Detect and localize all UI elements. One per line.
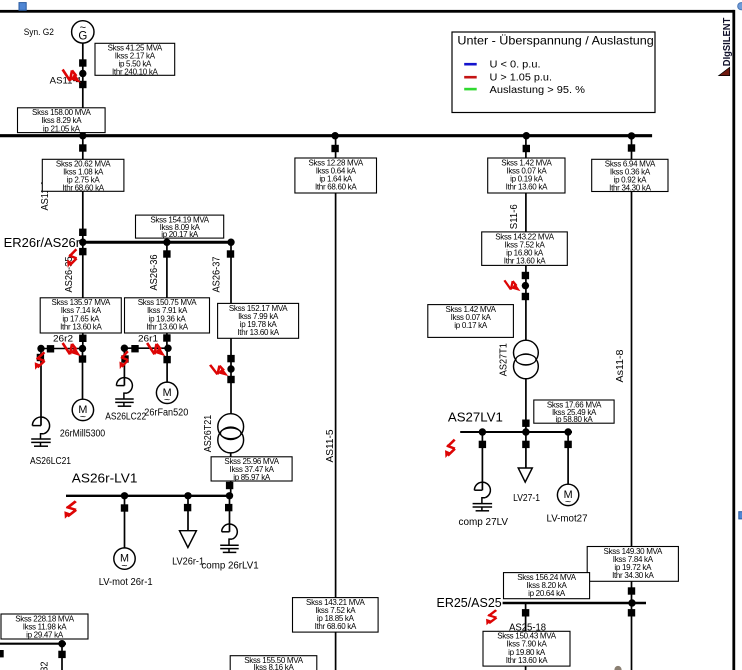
svg-text:AS26LC21: AS26LC21 xyxy=(30,456,71,467)
svg-text:AS27LV1: AS27LV1 xyxy=(448,411,503,425)
node junction (168,348) xyxy=(164,345,171,352)
result box AS25-18 xyxy=(483,631,570,666)
fault marker at AS26-37 xyxy=(210,365,228,376)
legend item Auslastung>95% xyxy=(464,88,477,91)
legend box Unter-Ueberspannung/Auslastung xyxy=(452,32,655,113)
terminal switch (526,613) xyxy=(522,609,529,616)
svg-text:ip 20.64 kA: ip 20.64 kA xyxy=(528,589,566,598)
terminal switch (525,276) xyxy=(522,272,529,279)
busbar main 110kV xyxy=(0,134,652,137)
svg-text:~: ~ xyxy=(565,496,571,508)
node junction (231,369) xyxy=(227,365,234,372)
terminal switch (83,338) xyxy=(79,335,86,342)
svg-text:Ithr 68.60 kA: Ithr 68.60 kA xyxy=(62,183,104,192)
motor 26rMill5300 xyxy=(72,399,93,423)
terminal switch (50,349) xyxy=(47,345,54,352)
terminal switch (229,508) xyxy=(225,504,232,511)
terminal switch (83,252) xyxy=(79,248,86,255)
shunt filter AS26LC21 xyxy=(31,417,51,446)
result box AS27T1-hv xyxy=(428,305,514,338)
legend item U<0 p.u. xyxy=(464,63,477,66)
terminal switch (230,486) xyxy=(226,482,233,489)
wire feeder AS26-37 to transformer AS26T21 xyxy=(230,244,232,414)
svg-text:LV26r-1: LV26r-1 xyxy=(172,557,204,568)
terminal switch (231,359) xyxy=(227,355,234,362)
busbar ER25/AS25 xyxy=(503,602,646,605)
wire transformer AS27T1 to busbar AS27LV1 xyxy=(525,378,527,432)
selection handle top-right xyxy=(738,3,742,10)
node junction (83,74) xyxy=(79,70,86,77)
frame right border xyxy=(732,10,735,670)
terminal switch (230,254) xyxy=(227,250,234,257)
terminal switch (568,444) xyxy=(564,441,571,448)
node junction (231,242) xyxy=(227,239,234,246)
shunt filter AS26LC22 xyxy=(115,378,134,407)
terminal switch (62,654) xyxy=(58,651,65,658)
terminal switch (526,444) xyxy=(522,441,529,448)
wire feeder AS11-5 xyxy=(335,137,337,670)
node junction (83,136) xyxy=(79,132,86,139)
fault marker at S11-6 xyxy=(504,280,520,291)
shunt filter comp 26rLV1 xyxy=(220,524,239,552)
svg-text:Ithr 68.60 kA: Ithr 68.60 kA xyxy=(315,622,357,631)
fault marker ER25 xyxy=(486,610,496,625)
terminal switch (167,360) xyxy=(163,356,170,363)
node junction (124,496) xyxy=(121,492,128,499)
svg-text:~: ~ xyxy=(121,560,127,572)
svg-text:Unter - Überspannung / Auslast: Unter - Überspannung / Auslastung xyxy=(457,33,653,47)
svg-text:~: ~ xyxy=(80,411,86,423)
svg-text:AS27T1: AS27T1 xyxy=(498,343,509,376)
node junction (568,432) xyxy=(564,428,571,435)
terminal switch (188,508) xyxy=(184,504,191,511)
load LV27-1 xyxy=(518,468,532,482)
wire feeder As11-8 xyxy=(631,137,633,602)
terminal switch (83,63) xyxy=(79,59,86,66)
node junction (62,644) xyxy=(58,640,65,647)
wire branch to shunt comp 26rLV1 xyxy=(229,496,231,532)
motor 26rFan520 xyxy=(156,382,177,406)
fault marker on 26r2 bus xyxy=(63,343,81,356)
node junction (188,496) xyxy=(184,492,191,499)
wire branch to motor LV-mot27 xyxy=(567,433,569,484)
svg-text:Ithr 240.10 kA: Ithr 240.10 kA xyxy=(112,67,159,76)
node junction (525,286) xyxy=(522,282,529,289)
partial node bottom edge xyxy=(614,666,621,670)
result box AS26T21-lv xyxy=(211,457,292,482)
node junction (526,136) xyxy=(523,132,530,139)
svg-text:Ithr 68.60 kA: Ithr 68.60 kA xyxy=(315,183,357,192)
motor LV-mot 26r-1 xyxy=(114,548,135,572)
svg-text:AS26-37: AS26-37 xyxy=(212,256,223,292)
wire feeder AS26-35 xyxy=(82,244,84,349)
wire feeder S11-6 to transformer AS27T1 xyxy=(525,137,527,341)
terminal switch (231,380) xyxy=(227,376,234,383)
generator Syn.G2 xyxy=(72,21,94,43)
node junction (41,348) xyxy=(37,345,44,352)
terminal switch (632,613) xyxy=(628,609,635,616)
svg-text:LV-mot 26r-1: LV-mot 26r-1 xyxy=(99,577,153,588)
svg-text:ip 58.80 kA: ip 58.80 kA xyxy=(556,415,594,424)
result box AS11-5-bot xyxy=(293,598,379,633)
terminal switch (124,508) xyxy=(121,504,128,511)
svg-text:ip 20.17 kA: ip 20.17 kA xyxy=(161,230,199,239)
svg-text:ER25/AS25: ER25/AS25 xyxy=(437,596,502,610)
terminal switch (83,232) xyxy=(79,229,86,236)
selection handle top-left xyxy=(19,3,26,11)
legend item U>1.05 p.u. xyxy=(464,76,477,79)
fault marker 26r1 left branch xyxy=(119,351,128,369)
svg-text:ip 21.05 kA: ip 21.05 kA xyxy=(43,124,81,133)
transformer AS26T21 xyxy=(218,414,244,453)
svg-text:LV-mot27: LV-mot27 xyxy=(547,514,588,525)
terminal switch (526,423) xyxy=(522,420,529,427)
svg-text:AS26r-LV1: AS26r-LV1 xyxy=(72,472,138,486)
node junction (482,432) xyxy=(479,428,486,435)
svg-text:Ithr 34.30 kA: Ithr 34.30 kA xyxy=(609,184,651,193)
terminal switch (167,254) xyxy=(163,250,170,257)
node junction (230,496) xyxy=(226,492,233,499)
result box S11-6-mid xyxy=(482,232,568,266)
result box AS11-5-top xyxy=(295,158,377,193)
svg-text:U < 0. p.u.: U < 0. p.u. xyxy=(490,60,541,71)
wire feeder AS26-36 xyxy=(166,244,168,349)
node junction (83,242) xyxy=(79,239,86,246)
terminal switch (83,148) xyxy=(79,144,86,151)
wire branch to motor LV-mot 26r-1 xyxy=(124,496,126,548)
wire feeder AS26-32 xyxy=(61,645,63,670)
selection handle mid-right xyxy=(739,512,742,519)
busbar 26r1 xyxy=(124,347,168,349)
svg-text:ip 29.47 kA: ip 29.47 kA xyxy=(26,631,64,640)
result box As11-8-top xyxy=(592,159,668,192)
terminal switch (83,84) xyxy=(79,81,86,88)
terminal switch (526,148) xyxy=(523,145,530,152)
result box AS11-1 xyxy=(42,159,124,192)
svg-text:comp 27LV: comp 27LV xyxy=(459,517,509,528)
svg-text:comp 26rLV1: comp 26rLV1 xyxy=(201,561,259,572)
terminal switch (632,148) xyxy=(628,144,635,151)
node junction (124,348) xyxy=(121,345,128,352)
wire feeder As11-8 below ER25 xyxy=(631,604,633,670)
svg-text:Ithr 13.60 kA: Ithr 13.60 kA xyxy=(504,256,546,265)
result box As11-8-bot xyxy=(587,547,678,582)
result box G2 xyxy=(95,43,175,76)
wire 26r2 right branch to motor 26rMill5300 xyxy=(82,349,84,400)
wire 26r2 left branch to AS26LC21 xyxy=(40,349,42,426)
result box AS26-36 xyxy=(125,298,210,333)
result box AS26-37 xyxy=(218,303,299,338)
svg-text:~: ~ xyxy=(164,394,170,406)
terminal switch (525,296) xyxy=(522,293,529,300)
terminal switch (125,359) xyxy=(121,355,128,362)
svg-text:ip 0.17 kA: ip 0.17 kA xyxy=(454,321,488,330)
terminal switch (135,349) xyxy=(131,345,138,352)
svg-text:Ithr 13.60 kA: Ithr 13.60 kA xyxy=(506,656,548,665)
terminal switch (40,358) xyxy=(37,354,44,361)
terminal switch (82,359) xyxy=(79,355,86,362)
svg-text:26rMill5300: 26rMill5300 xyxy=(60,429,106,440)
svg-text:Ithr 13.60 kA: Ithr 13.60 kA xyxy=(506,183,548,192)
node junction (335,136) xyxy=(331,132,338,139)
DIgSILENT logo xyxy=(719,17,733,75)
svg-text:G: G xyxy=(78,31,87,43)
wire 26r1 right branch to motor 26rFan520 xyxy=(166,348,168,382)
terminal switch (335,148) xyxy=(331,145,338,152)
svg-text:S11-6: S11-6 xyxy=(509,204,520,229)
result box S11-6-top xyxy=(488,158,565,193)
result box AS26-32 xyxy=(230,656,317,670)
wire branch to load LV27-1 xyxy=(525,433,527,469)
svg-text:AS26T21: AS26T21 xyxy=(203,414,214,452)
node junction (526,432) xyxy=(522,428,529,435)
busbar bottom left AS26 xyxy=(0,643,66,645)
result box AS26-35 xyxy=(40,298,121,333)
result box bottom-left-bus xyxy=(1,614,88,640)
node junction (632,603) xyxy=(628,599,635,606)
svg-text:DIgSILENT: DIgSILENT xyxy=(721,17,733,66)
svg-text:AS11-5: AS11-5 xyxy=(325,429,336,462)
result box ER25 xyxy=(504,573,590,599)
svg-text:LV27-1: LV27-1 xyxy=(513,493,540,504)
motor LV-mot27 xyxy=(557,484,578,508)
svg-text:26rFan520: 26rFan520 xyxy=(144,408,188,419)
svg-text:Ithr 13.60 kA: Ithr 13.60 kA xyxy=(60,322,102,331)
fault marker below ER26r xyxy=(67,249,76,267)
result box main-bus xyxy=(18,108,106,134)
terminal switch (482,444) xyxy=(479,441,486,448)
transformer AS27T1 xyxy=(514,340,539,379)
wire feeder AS11-1 busbar to ER26r xyxy=(82,137,84,241)
node junction (167,242) xyxy=(163,239,170,246)
wire transformer AS26T21 to busbar AS26r-LV1 xyxy=(230,453,232,496)
busbar 26r2 xyxy=(41,348,83,350)
fault marker AS27LV1 xyxy=(445,440,455,458)
svg-text:Ithr 13.60 kA: Ithr 13.60 kA xyxy=(146,322,188,331)
wire feeder AS25-18 xyxy=(525,604,527,670)
svg-text:ip 85.97 kA: ip 85.97 kA xyxy=(233,473,271,482)
svg-text:Auslastung > 95. %: Auslastung > 95. % xyxy=(490,85,586,96)
busbar AS26r-LV1 xyxy=(66,495,232,497)
busbar AS27LV1 xyxy=(460,431,572,433)
fault marker on 26r1 bus xyxy=(147,343,165,356)
result box AS27LV1 xyxy=(534,400,614,424)
node junction (632,136) xyxy=(628,132,635,139)
fault marker at generator AS11-4 xyxy=(63,70,81,83)
svg-text:Ithr 13.60 kA: Ithr 13.60 kA xyxy=(237,328,279,337)
svg-text:Syn. G2: Syn. G2 xyxy=(24,27,54,38)
wire generator G2 to busbar xyxy=(82,43,84,135)
load LV26r-1 xyxy=(180,531,197,548)
frame top border xyxy=(0,10,734,13)
terminal switch (0,654) xyxy=(0,650,4,657)
terminal switch (167,338) xyxy=(163,334,170,341)
svg-text:AS26LC22: AS26LC22 xyxy=(105,412,146,423)
svg-text:Ithr 34.30 kA: Ithr 34.30 kA xyxy=(612,571,654,580)
svg-text:U > 1.05 p.u.: U > 1.05 p.u. xyxy=(490,72,553,83)
fault marker 26r2 left branch xyxy=(35,352,45,369)
svg-text:Ikss 8.16 kA: Ikss 8.16 kA xyxy=(254,663,295,670)
wire 26r1 left branch to AS26LC22 xyxy=(123,348,125,385)
svg-text:As11-8: As11-8 xyxy=(615,349,626,382)
terminal switch (632,591) xyxy=(628,587,635,594)
svg-text:AS26-36: AS26-36 xyxy=(149,254,160,290)
wire branch to shunt comp 27LV xyxy=(481,433,483,490)
shunt filter comp 27LV xyxy=(473,482,493,511)
result box ER26r xyxy=(136,215,224,239)
busbar ER26r/AS26r xyxy=(81,241,232,244)
svg-text:AS26-32: AS26-32 xyxy=(40,661,51,670)
svg-text:ER26r/AS26r: ER26r/AS26r xyxy=(4,236,81,250)
node junction (82,348) xyxy=(79,345,86,352)
fault marker AS26r-LV1 xyxy=(64,501,76,518)
wire branch to load LV26r-1 xyxy=(187,496,189,531)
